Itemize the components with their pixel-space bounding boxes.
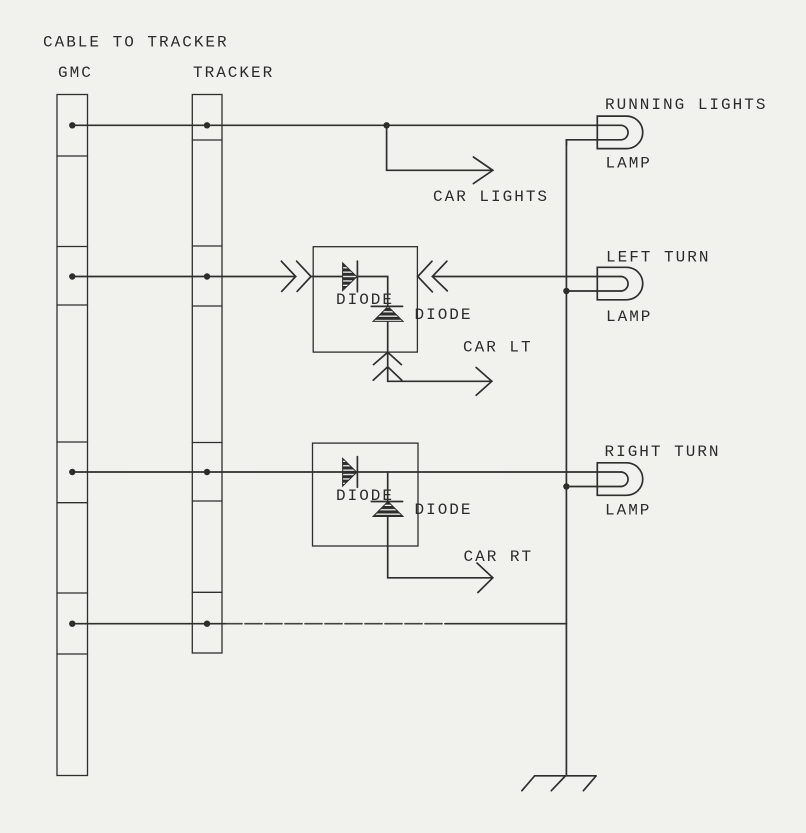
svg-text:CAR LT: CAR LT [463,339,533,357]
svg-text:DIODE: DIODE [415,501,473,519]
svg-text:LAMP: LAMP [606,155,652,173]
wire CAR LT drop below box [388,352,492,381]
connector chevrons row2 right [418,261,433,292]
wire row3 drop [387,472,389,546]
lamp running lights outline [597,116,642,149]
ground chassis symbol [522,776,596,791]
node TRACKER pin2 [204,273,210,279]
arrowhead CAR RT [477,563,493,593]
svg-text:CABLE TO TRACKER: CABLE TO TRACKER [43,34,229,52]
diode box row3 [313,443,419,546]
wire row4 to bus [72,623,225,625]
wire row2 right to lamp [432,276,620,278]
arrowhead chevrons up row2 [374,352,402,364]
wire CAR RT drop below box [388,546,493,578]
node bus lamp3 [563,483,569,489]
node GMC pin1 [69,122,75,128]
svg-text:CAR LIGHTS: CAR LIGHTS [433,188,549,206]
svg-text:DIODE: DIODE [415,306,473,324]
lamp left turn outline [597,267,642,300]
wire row2 diode to drop [357,277,387,353]
arrowhead CAR LT [476,368,492,396]
node GMC pin3 [69,469,75,475]
node junction car-lights tap [383,122,389,128]
node TRACKER pin3 [204,469,210,475]
wire lamp3 return to bus [566,486,620,488]
wire row1 running lights [72,124,621,126]
svg-text:LAMP: LAMP [606,308,652,326]
connector GMC column [57,95,88,776]
svg-text:LEFT TURN: LEFT TURN [606,249,710,267]
arrowhead CAR LIGHTS [473,157,492,184]
svg-text:RIGHT TURN: RIGHT TURN [605,443,721,461]
diode D2 (shunt, row2) [371,306,403,321]
svg-text:GMC: GMC [58,64,93,82]
wire lamp1 return to bus [566,140,620,145]
svg-text:TRACKER: TRACKER [193,64,274,82]
node GMC pin4 [69,621,75,627]
wire lamp2 return to bus [566,290,620,292]
lamp left turn filament arc [621,277,628,292]
lamp running lights filament arc [621,125,628,140]
diode D1 (series, row2) [343,261,358,292]
diode box row2 [313,247,417,352]
wire row2 into diode [311,276,343,278]
node bus lamp2 [563,288,569,294]
wire bus vertical [565,140,567,776]
diode D3 (series, row3) [343,457,358,488]
connector TRACKER column [192,95,222,654]
node GMC pin2 [69,273,75,279]
lamp right turn filament arc [621,472,628,487]
svg-text:RUNNING LIGHTS: RUNNING LIGHTS [605,96,767,114]
svg-text:LAMP: LAMP [605,502,651,520]
wire row2 left segment [72,276,295,278]
wire CAR LIGHTS branch [387,125,493,170]
wire row3 left segment [72,471,342,473]
node TRACKER pin1 [204,122,210,128]
node TRACKER pin4 [204,621,210,627]
lamp right turn outline [597,463,642,496]
connector chevrons row2 left [281,261,295,291]
svg-text:CAR RT: CAR RT [464,548,534,566]
diode D4 (shunt, row3) [371,502,403,517]
wire row3 right to lamp [357,471,620,473]
